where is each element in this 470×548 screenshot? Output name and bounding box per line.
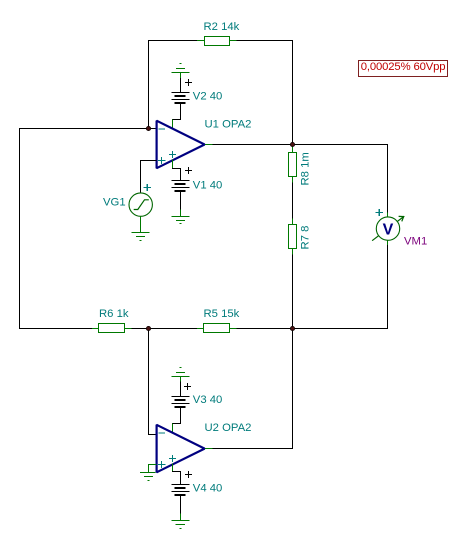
wire R7 lead top green (292, 219, 294, 225)
wire bottom horizontal (20, 328, 388, 330)
wire VG1 to ground (140, 217, 142, 233)
wire R7 lead bottom green (292, 249, 294, 255)
generator VG1 (129, 193, 152, 216)
plus mark U1 input (159, 158, 165, 164)
svg-text:V4 40: V4 40 (193, 482, 223, 494)
wire U2 plus input to ground green (149, 465, 157, 473)
battery V3 40 (172, 397, 189, 408)
svg-text:R7 8: R7 8 (300, 226, 312, 250)
svg-text:VM1: VM1 (404, 235, 427, 247)
svg-text:V2 40: V2 40 (193, 90, 223, 102)
battery V1 40 (172, 181, 189, 192)
wire right vertical upper (292, 41, 294, 145)
wire VM1 branch horizontal (293, 144, 388, 146)
svg-text:R5 15k: R5 15k (204, 308, 240, 320)
svg-text:VG1: VG1 (103, 197, 126, 209)
wire left vertical (19, 129, 21, 329)
svg-text:V1 40: V1 40 (193, 179, 223, 191)
measurement box 0,00025% 60Vpp (358, 60, 448, 77)
ground at U2 plus input (141, 473, 156, 481)
plus sign VG1 (144, 185, 150, 191)
wire V3 to U2 Vplus step (173, 408, 181, 428)
wire U1 Vminus step to V1 (173, 169, 181, 181)
wire ground to V2 (180, 79, 182, 93)
plus sign V1 (185, 168, 191, 174)
plus sign V3 (185, 384, 191, 390)
voltmeter VM1 arrow (373, 216, 404, 240)
battery V4 40 (172, 485, 189, 496)
wire inverting input U1 (20, 128, 157, 130)
wire ground to V3 (180, 382, 182, 397)
wire U1 output green stub (205, 144, 213, 146)
wire top loop horizontal (149, 40, 293, 42)
svg-text:R8 1m: R8 1m (300, 152, 312, 185)
resistor R7 8 (289, 225, 297, 249)
wire VM1 bottom vertical (387, 240, 389, 328)
wire V4 to ground (180, 496, 182, 515)
plus sign V4 (186, 472, 192, 478)
voltmeter VM1 plus sign (376, 210, 382, 216)
minus mark U1 (159, 128, 164, 130)
svg-text:U1 OPA2: U1 OPA2 (205, 119, 252, 131)
svg-text:R2 14k: R2 14k (204, 21, 240, 33)
plus mark U2 input (159, 462, 165, 468)
pin stub U2 Vplus green (172, 424, 174, 433)
wire VM1 bottom green stub (387, 240, 389, 244)
wire VM1 top vertical (387, 145, 389, 218)
node junction dot U1 output (290, 142, 294, 146)
svg-text:R6 1k: R6 1k (99, 308, 129, 320)
wire VM1 top green stub (387, 213, 389, 217)
plus mark U2 supply (170, 456, 176, 462)
wire node to R8 green (292, 145, 294, 153)
ground below VG1 (132, 233, 149, 241)
op-amp U1 (157, 121, 205, 169)
svg-text:V3 40: V3 40 (193, 394, 223, 406)
resistor R5 15k (204, 324, 230, 333)
wire V2 to U1 Vplus step (173, 104, 181, 124)
wire U2 Vminus step to V4 (173, 472, 181, 485)
wire U2 output vertical up (292, 329, 294, 449)
svg-text:V: V (383, 222, 394, 239)
op-amp U2 (157, 425, 205, 473)
resistor R8 1m (289, 153, 297, 177)
wire bottom node to U2 inverting (149, 329, 157, 435)
resistor R2 14k (205, 37, 230, 46)
minus mark U2 (159, 432, 164, 434)
node junction dot left input (146, 126, 150, 130)
resistor R6 leads green (93, 328, 132, 330)
node junction dot bottom left (146, 326, 150, 330)
wire R7 to bottom node (292, 249, 294, 329)
battery V2 40 (172, 93, 189, 103)
ground below V4 (172, 521, 189, 529)
svg-text:U2 OPA2: U2 OPA2 (205, 422, 252, 434)
plus mark U1 supply (170, 152, 176, 158)
pin stub U2 Vminus green (172, 464, 174, 472)
resistor R6 1k (99, 324, 125, 333)
wire U1 output (204, 144, 293, 146)
resistor R2 leads green (198, 40, 237, 42)
wire V1 to ground (180, 192, 182, 211)
plus sign V2 (185, 80, 191, 86)
node junction dot bottom right (290, 326, 294, 330)
ground above V3 (172, 368, 189, 383)
ground below V1 (172, 217, 189, 224)
wire U2 output (204, 448, 293, 450)
ground above V2 (172, 64, 189, 79)
pin stub U1 Vplus green (172, 120, 174, 129)
voltmeter VM1 circle (376, 217, 399, 240)
wire top loop left vertical (148, 41, 150, 129)
wire R8 to R7 (292, 177, 294, 225)
wire VG1 to U1 plus input (141, 161, 157, 194)
wire R8 lead bottom green (292, 177, 294, 183)
wire U2 output green stub (205, 448, 213, 450)
resistor R5 leads green (198, 328, 237, 330)
pin stub U1 Vminus green (172, 160, 174, 169)
